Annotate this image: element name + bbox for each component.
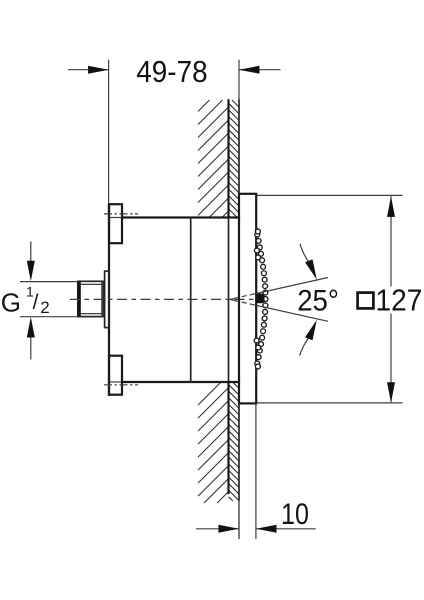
svg-text:/: /: [33, 291, 39, 314]
extension line left (49-78): [108, 60, 110, 204]
extension line wall surface top (49-78 right): [238, 60, 240, 100]
extension line G1/2 bottom: [20, 316, 78, 318]
extension line 127 top: [257, 194, 403, 196]
screw centerline bottom tab: [104, 384, 138, 386]
square face plate side view: [239, 194, 256, 404]
arc leader upper: [300, 244, 310, 263]
housing internal step line: [190, 218, 192, 383]
wall tile joint line lower: [227, 382, 229, 493]
wall hatch upper wide band: [198, 100, 229, 218]
extension line 127 bottom: [257, 402, 403, 404]
thread runout line: [101, 281, 103, 316]
square symbol: [358, 293, 374, 309]
mounting tab bottom: [109, 356, 122, 395]
screw centerline top tab: [104, 213, 138, 215]
housing body outline: [109, 204, 239, 395]
dimension line 49-78 right tail: [239, 69, 281, 71]
arc leader lower: [300, 336, 310, 355]
spray angle upper line: [252, 278, 328, 295]
extension line 10 right (plate face): [255, 403, 257, 539]
housing edge behind top tab: [110, 217, 123, 219]
dimension arrow 49-78 right: [239, 66, 260, 74]
svg-text:2: 2: [40, 298, 49, 317]
spray angle upper line dashed start: [230, 294, 252, 299]
wall tile hatch lower narrow band: [229, 382, 239, 501]
dimension line 127 upper: [390, 196, 392, 286]
svg-text:25°: 25°: [297, 285, 339, 318]
nipple end face thick edge: [78, 281, 81, 316]
G1/2 arrow shaft top: [30, 242, 32, 264]
dimension line 49-78 left tail: [68, 69, 109, 71]
mounting tab top: [109, 204, 122, 243]
wall tile joint line upper: [227, 100, 229, 217]
dimension arrow 49-78 left: [88, 66, 109, 74]
svg-text:127: 127: [376, 283, 423, 318]
housing edge behind bottom tab: [110, 381, 123, 383]
wall tile joint line through body: [228, 218, 230, 383]
threaded nipple G1/2: [78, 281, 103, 316]
wall finished surface line: [238, 100, 240, 500]
extension line G1/2 top: [20, 281, 78, 283]
wall hatch lower wide band: [198, 382, 229, 503]
G1/2 arrow top: [27, 261, 35, 282]
dimension line 10 right tail: [256, 528, 316, 530]
dimension arrow 127 bottom: [387, 382, 395, 403]
spray face outline bottom: [256, 363, 258, 372]
wall surface line lower thin part: [238, 500, 240, 539]
dimension arrow 10 left: [218, 525, 239, 533]
spray angle lower line dashed start: [230, 299, 252, 304]
arc arrow upper: [305, 259, 317, 279]
dimension arrow 127 top: [387, 196, 395, 217]
dimension arrow 10 right: [256, 525, 277, 533]
arc arrow lower: [305, 320, 317, 340]
central nozzle: [256, 294, 265, 304]
thread root line bottom: [80, 313, 102, 315]
G1/2 arrow shaft bottom: [30, 335, 32, 360]
wall tile hatch upper narrow band: [229, 100, 239, 218]
nozzle bumps chain: [254, 229, 268, 369]
inlet collar: [105, 271, 110, 328]
pipe centerline: [70, 298, 257, 300]
svg-text:49-78: 49-78: [136, 54, 207, 89]
spray face outline top: [256, 227, 258, 236]
extension line 10 left (wall surface): [238, 500, 240, 539]
spray angle lower line: [252, 304, 328, 321]
svg-text:10: 10: [281, 498, 309, 531]
svg-text:G: G: [1, 287, 21, 317]
thread root line top: [80, 283, 102, 285]
dimension line 127 lower: [390, 314, 392, 403]
dimension line 10 left tail: [196, 528, 239, 530]
G1/2 arrow bottom: [27, 317, 35, 338]
